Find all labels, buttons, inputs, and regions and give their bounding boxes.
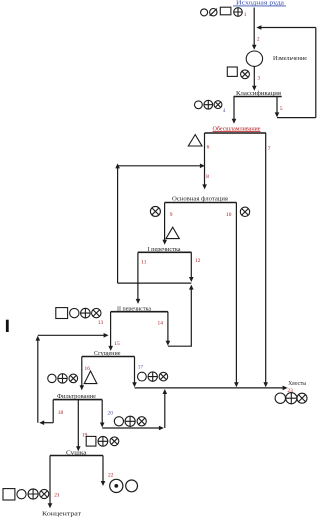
rougher top line	[165, 202, 237, 204]
reagent symbol square (group 19)	[86, 436, 96, 446]
reagent symbol circle (group 13)	[70, 308, 79, 317]
wire: rougher tails down to tailings	[235, 203, 237, 384]
triangle symbol (rougher)	[166, 227, 179, 238]
svg-text:2: 2	[257, 37, 260, 43]
arrowhead into cleaner2	[136, 299, 141, 304]
wire: cleaner1 tails return vertical	[117, 166, 119, 283]
reagent symbol circle-x (group 21)	[40, 489, 49, 498]
svg-text:11: 11	[141, 260, 146, 266]
arrowhead into cleaner1	[162, 240, 167, 245]
node: roman numeral I	[6, 320, 9, 332]
reagent symbol circle-x (group 17 right)	[159, 372, 168, 381]
arrowhead filter right horizontal	[159, 426, 164, 431]
cleaner1 bottom line	[118, 282, 192, 284]
reagent symbol circle-plus (group 23)	[286, 393, 297, 404]
svg-text:16: 16	[85, 366, 91, 372]
wire: desliming overflow to tailings	[265, 133, 267, 384]
reagent symbol circle-x (group 17 left)	[69, 374, 78, 383]
reagent symbol circle (group 22)	[126, 480, 138, 492]
wire: filter cake down	[77, 400, 79, 448]
classifier top line	[234, 96, 282, 98]
wire: cleaner2 tails return horizontal	[168, 345, 192, 347]
reagent symbol circle-x (group 23)	[297, 393, 307, 403]
arrowhead thickener overflow	[132, 382, 137, 387]
reagent symbol circle-plus (group 20)	[125, 416, 135, 426]
reagent symbol circle-x (group 19)	[110, 437, 119, 446]
arrowhead cleaner1 tails	[189, 277, 194, 282]
wire: filter left horizontal	[43, 422, 54, 424]
wire: filtrate return horizontal	[38, 334, 105, 336]
arrowhead cleaner2 tails up into cleaner1	[189, 285, 194, 290]
arrowhead into desliming	[232, 119, 237, 124]
wire: sands recycle horizontal top	[258, 27, 316, 29]
arrowhead filtrate return up	[36, 336, 41, 341]
wire: cleaner1 tails down	[190, 252, 192, 278]
reagent symbol circle-x (group 3)	[241, 70, 250, 79]
wire: tailings line	[135, 387, 285, 389]
wire: cleaner2 concentrate down	[110, 312, 112, 348]
arrowhead recycle into feed	[256, 25, 261, 30]
arrowhead filtrate up into tailings	[163, 389, 168, 394]
wire: classifier fines down	[233, 97, 235, 121]
svg-text:14: 14	[158, 321, 164, 327]
arrowhead into thickener	[108, 346, 113, 351]
svg-text:4: 4	[223, 108, 226, 114]
reagent symbol circle-plus (group 17 right)	[148, 372, 157, 381]
svg-text:21: 21	[54, 493, 60, 499]
wire: sands recycle bottom horizontal	[277, 117, 316, 119]
svg-text:22: 22	[108, 473, 114, 479]
wire: dryer exhaust down	[102, 456, 104, 483]
arrowhead filter left	[39, 420, 44, 425]
svg-text:Концентрат: Концентрат	[42, 511, 81, 517]
reagent symbol circle-x (group 13)	[92, 308, 101, 317]
reagent symbol circle-x (group 9)	[150, 206, 160, 216]
wire: thickener underflow down	[81, 357, 83, 387]
arrowhead line7 into tailings line	[263, 382, 268, 387]
arrowhead return into rougher feed	[200, 164, 205, 169]
reagent symbol circle-plus (group 17 left)	[58, 374, 67, 383]
reagent symbol circle-x (group 20)	[137, 417, 146, 426]
arrowhead filter right down	[100, 423, 105, 428]
svg-text:12: 12	[195, 258, 201, 264]
wire: filter right horizontal	[102, 427, 160, 429]
arrowhead into mill	[252, 45, 257, 50]
wire: filtrate up to tailings line	[164, 393, 166, 428]
svg-text:17: 17	[138, 364, 144, 370]
triangle symbol (desliming)	[188, 135, 202, 146]
wire: filter left down	[52, 400, 54, 423]
reagent symbol circle-plus (group 1)	[234, 8, 243, 17]
arrowhead return vertical up	[115, 163, 120, 168]
red underline of desliming	[213, 131, 261, 133]
svg-text:6: 6	[207, 145, 210, 151]
dryer top line	[50, 455, 103, 457]
wire: filtrate return vertical	[37, 339, 39, 423]
wire: concentrate down	[49, 456, 51, 505]
wire: thickener overflow down	[134, 357, 136, 384]
svg-text:20: 20	[108, 410, 114, 416]
reagent symbol circle-plus (group 19)	[98, 436, 108, 446]
arrowhead rougher tails into tailings line	[234, 382, 239, 387]
wire: desliming to rougher flotation	[204, 133, 206, 186]
wire: cleaner1 tails return horizontal	[118, 165, 202, 167]
reagent symbol circle (group 21)	[17, 490, 26, 499]
arrowhead into rougher	[202, 184, 207, 189]
wire: classifier sands down	[276, 96, 278, 114]
svg-text:5: 5	[280, 106, 283, 112]
reagent symbol circle (group 17 right)	[138, 372, 147, 381]
svg-text:10: 10	[226, 212, 232, 218]
thickener top line	[82, 356, 135, 358]
svg-text:13: 13	[98, 320, 104, 326]
filter top line	[53, 399, 102, 401]
reagent symbol circle (group 1)	[201, 9, 208, 16]
desliming top line	[205, 132, 267, 134]
reagent symbol circle (group 17 left)	[48, 374, 56, 382]
wire: sands recycle right vertical	[315, 28, 317, 118]
arrowhead into dryer	[76, 446, 81, 451]
svg-text:Измельчение: Измельчение	[273, 56, 307, 62]
reagent symbol circle-x (group 10)	[240, 207, 249, 216]
reagent symbol slashed circle (group 1)	[210, 9, 217, 16]
reagent symbol circle-plus (group 13)	[81, 308, 91, 318]
cleaner1 top line	[138, 251, 192, 253]
triangle symbol (thickener)	[84, 371, 97, 384]
reagent symbol circle (group 23)	[275, 393, 285, 403]
node: grinding mill circle	[246, 51, 262, 66]
svg-text:18: 18	[58, 410, 64, 416]
cleaner2 top line	[111, 311, 168, 313]
arrowhead concentrate	[48, 503, 53, 508]
svg-text:9: 9	[170, 212, 173, 218]
wire: cleaner2 tails down	[167, 312, 169, 342]
arrowhead into filter	[80, 385, 85, 390]
arrowhead cleaner2 tails down	[166, 341, 171, 346]
svg-text:3: 3	[257, 75, 260, 81]
reagent symbol circle-x (group 4)	[214, 101, 222, 109]
reagent symbol square (group 13)	[56, 308, 68, 319]
arrowhead filtrate return into thickener feed	[104, 333, 109, 338]
underline of feed label	[233, 5, 286, 7]
reagent symbol square (group 21)	[3, 489, 15, 500]
svg-text:15: 15	[114, 341, 120, 347]
wire: filter right down	[101, 400, 103, 424]
wire: mill to classifier	[253, 66, 255, 87]
reagent symbol circle-plus (group 21)	[28, 489, 38, 499]
wire: cleaner2 tails return vertical	[190, 288, 192, 346]
arrowhead sands corner	[275, 112, 280, 117]
svg-text:8: 8	[206, 174, 209, 180]
reagent symbol square (group 1)	[220, 7, 231, 15]
arrowhead into classifier	[252, 86, 257, 91]
reagent symbol circle (group 20)	[114, 417, 123, 426]
reagent symbol circle-plus (group 4)	[204, 100, 213, 109]
reagent symbol circle-dot (group 22)	[110, 479, 123, 492]
svg-text:1: 1	[244, 12, 247, 18]
svg-text:Основная флотация: Основная флотация	[172, 196, 228, 203]
reagent symbol circle (group 4)	[195, 101, 203, 109]
svg-text:Хвосты: Хвосты	[288, 381, 306, 387]
wire: cleaner1 concentrate down	[137, 252, 139, 300]
arrowhead dryer exhaust	[101, 481, 106, 486]
arrowhead tailings out	[283, 386, 288, 391]
wire: ore feed into mill	[253, 8, 255, 47]
reagent symbol square (group 3)	[227, 67, 237, 76]
svg-text:7: 7	[268, 146, 271, 152]
wire: rougher concentrate down	[164, 203, 166, 242]
